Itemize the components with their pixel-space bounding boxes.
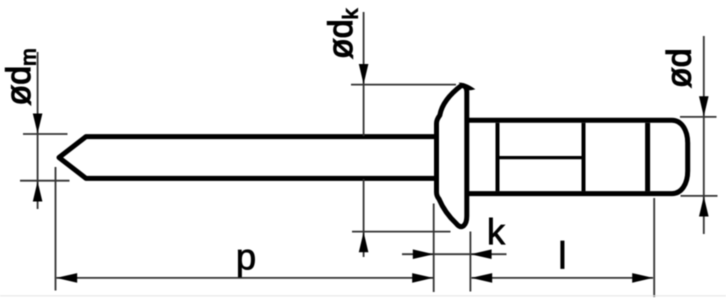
dim ød: down arrow — [699, 96, 709, 116]
rivet head (flange) — [437, 85, 467, 226]
dim ødm: bottom tick — [20, 180, 70, 182]
dim k: left leader+arrow — [402, 253, 507, 255]
label k — [489, 218, 505, 244]
dim l: right arrow — [632, 273, 653, 283]
extension line at body end (l) — [653, 198, 655, 297]
extension line left of p (mandrel tip) — [55, 167, 57, 291]
dim ødm: up arrow — [33, 181, 43, 201]
dim ødk: up arrow — [359, 232, 369, 252]
extension line at head left face (p/k) — [433, 204, 435, 293]
label l — [561, 241, 564, 269]
body internal line 3 (dome flat) — [645, 123, 650, 191]
dim ødk: bottom tick — [352, 231, 451, 233]
dim ødm: vertical line — [37, 52, 39, 209]
extension line at head right face (k/l) — [469, 232, 471, 292]
body internal line 1 — [496, 123, 500, 191]
rivet body (shank) — [466, 120, 688, 193]
body internal centre line (mandrel stem inside) — [496, 156, 586, 159]
dim ødk: vertical line lower part — [363, 179, 365, 257]
dim p: right arrow — [412, 273, 433, 283]
dim ød: up arrow — [699, 196, 709, 216]
dim ød: bottom tick — [681, 195, 718, 197]
body internal line 2 — [582, 123, 586, 191]
dim ødm: top tick — [23, 133, 68, 135]
dim ødm: down arrow — [33, 114, 43, 134]
label ødk — [327, 9, 357, 58]
dim l: left arrow — [471, 273, 492, 283]
dim p: line — [57, 277, 434, 279]
label ødm — [5, 50, 35, 105]
mandrel (rivet pin) — [59, 137, 437, 179]
dim k: right arrow — [471, 249, 492, 259]
dim ød: top tick — [680, 116, 717, 118]
dim ødk: down arrow — [359, 64, 369, 84]
dim l: line — [472, 277, 654, 279]
dim ødk: top tick — [351, 84, 456, 86]
dim ødk: vertical line — [363, 12, 365, 136]
dim p: left arrow — [56, 273, 77, 283]
rivet head edge curl (horn) — [459, 83, 476, 91]
label ød — [666, 51, 691, 88]
dim ød: vertical line — [703, 36, 705, 234]
faint scan rule at bottom — [0, 295, 726, 297]
label p — [238, 250, 254, 277]
